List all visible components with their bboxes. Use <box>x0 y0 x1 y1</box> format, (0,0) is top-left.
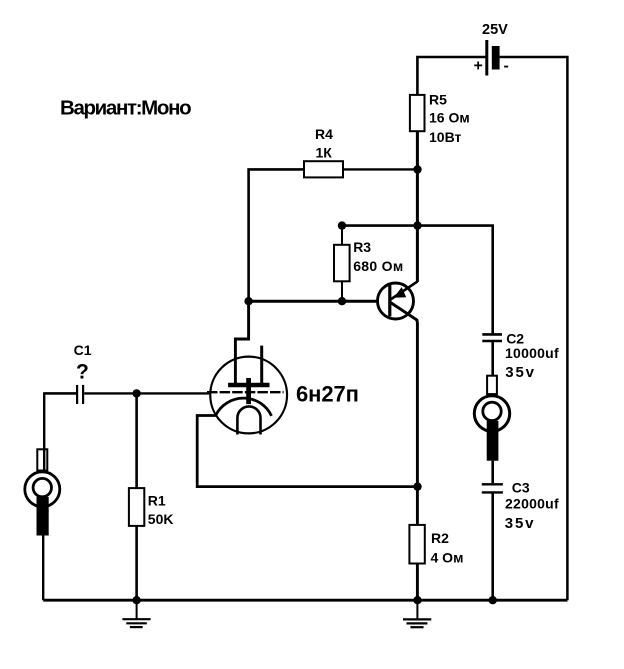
wire input column down to jack <box>44 393 76 470</box>
resistor R1 <box>129 488 144 526</box>
node junction R2/ground rail <box>413 596 421 604</box>
node junction emitter/R2 <box>413 482 421 490</box>
node junction C3/ground rail <box>489 596 497 604</box>
label R5 power 10Вт <box>429 129 461 145</box>
wire anode step from node down into tube <box>235 301 248 383</box>
svg-text:6н27п: 6н27п <box>296 382 359 407</box>
wire R4 left lead and left vertical down to anode node <box>249 169 304 301</box>
wire R1 bottom lead <box>135 526 138 600</box>
label C3 voltage 35v <box>505 515 535 532</box>
label C2 value 10000uf <box>505 345 559 361</box>
wire R5 bottom down to transistor collector corner <box>416 131 419 282</box>
svg-text:?: ? <box>76 361 89 384</box>
input jack J1 <box>25 449 60 600</box>
vacuum tube U1 6н27п <box>207 346 287 435</box>
wire grid input from C1 node to tube grid <box>137 392 209 394</box>
label R3 value 680 Ом <box>353 258 403 274</box>
svg-text:10Вт: 10Вт <box>429 129 461 145</box>
svg-text:Вариант:Моно: Вариант:Моно <box>60 96 191 119</box>
svg-text:680 Ом: 680 Ом <box>353 258 403 274</box>
svg-text:50K: 50K <box>148 511 174 527</box>
wire cathode loop from tube to emitter node <box>197 416 417 487</box>
label R5 value 16 Ом <box>429 110 470 126</box>
node junction R3 bottom <box>338 297 346 305</box>
svg-text:-: - <box>504 57 509 74</box>
svg-text:22000uf: 22000uf <box>505 496 559 512</box>
node junction R4/R5 <box>413 165 421 173</box>
wire R3 top lead <box>341 226 343 245</box>
speaker jack J2 <box>474 376 509 461</box>
wire emitter node down to R2 <box>416 487 419 525</box>
wire collector rail from R3 top node right and down to C2 <box>342 226 493 334</box>
label C3 <box>512 479 530 495</box>
label battery minus <box>504 57 509 74</box>
svg-text:35v: 35v <box>505 364 535 381</box>
svg-text:R4: R4 <box>315 126 333 142</box>
wire bottom ground rail <box>43 599 567 602</box>
capacitor C1 <box>44 385 136 404</box>
label R1 <box>148 492 166 508</box>
wire R3 bottom lead <box>341 281 343 301</box>
wire R2 bottom lead <box>416 564 419 601</box>
wire jack J2 to C3 <box>491 461 494 484</box>
label battery plus <box>474 57 483 74</box>
resistor R4 <box>304 161 343 177</box>
label R5 <box>429 91 447 107</box>
wire C3 to bottom rail <box>491 492 494 600</box>
svg-text:R5: R5 <box>429 91 447 107</box>
wire R1 top lead <box>135 393 138 488</box>
label title Вариант:Моно <box>60 96 191 119</box>
svg-text:R1: R1 <box>148 492 166 508</box>
node junction R3 top <box>338 221 346 229</box>
capacitor C2 <box>482 334 502 341</box>
node junction C1/R1/grid <box>132 389 140 397</box>
svg-text:+: + <box>474 57 483 74</box>
resistor R5 <box>410 95 425 131</box>
label battery value 25V <box>482 22 508 38</box>
node junction anode/R4 <box>244 297 252 305</box>
wire battery - to right rail and down right side to bottom rail <box>500 57 568 600</box>
label C1 value ? <box>76 361 89 384</box>
label R2 value 4 Ом <box>431 549 464 565</box>
label R4 value 1К <box>316 145 333 161</box>
resistor R2 <box>409 525 424 564</box>
label R2 <box>431 530 449 546</box>
label tube type 6н27п <box>296 382 359 407</box>
svg-text:R2: R2 <box>431 530 449 546</box>
label R1 value 50K <box>148 511 174 527</box>
svg-text:R3: R3 <box>353 239 371 255</box>
battery BT1 25V <box>487 40 500 76</box>
node junction R1/ground rail <box>132 596 140 604</box>
label R3 <box>353 239 371 255</box>
ground G1 <box>122 600 150 627</box>
label R4 <box>315 126 333 142</box>
svg-text:C3: C3 <box>512 479 530 495</box>
ground G2 <box>403 600 431 627</box>
capacitor C3 <box>482 484 503 492</box>
svg-text:4 Ом: 4 Ом <box>431 549 464 565</box>
node junction collector rail <box>413 221 421 229</box>
wire top rail from R5 node up and right to battery + <box>417 57 486 95</box>
label C2 voltage 35v <box>505 364 535 381</box>
wire R4 right lead to node on R5 line <box>343 168 417 170</box>
label C2 <box>506 331 524 347</box>
svg-text:35v: 35v <box>505 515 535 532</box>
svg-text:C1: C1 <box>74 342 92 358</box>
resistor R3 <box>334 245 350 281</box>
svg-text:10000uf: 10000uf <box>505 345 559 361</box>
wire C2 to speaker jack <box>491 341 494 396</box>
wire base line from anode node to transistor base <box>249 300 390 303</box>
svg-text:1К: 1К <box>316 145 333 161</box>
transistor Q1 <box>378 282 418 487</box>
label C1 <box>74 342 92 358</box>
label C3 value 22000uf <box>505 496 559 512</box>
svg-text:16 Ом: 16 Ом <box>429 110 470 126</box>
svg-text:25V: 25V <box>482 22 508 38</box>
